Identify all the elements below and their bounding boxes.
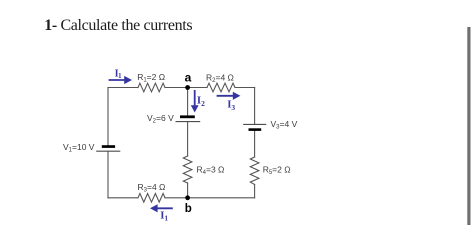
resistor R1 xyxy=(138,83,165,92)
svg-text:R3=4 Ω: R3=4 Ω xyxy=(138,182,166,194)
resistor R2 xyxy=(207,83,235,92)
wire right lower segment xyxy=(254,185,256,198)
svg-text:1- Calculate the currents: 1- Calculate the currents xyxy=(44,17,192,34)
current arrow I3 xyxy=(217,92,241,100)
wire middle branch upper (node a to V2) xyxy=(187,88,189,117)
wire right middle segment xyxy=(254,130,256,157)
svg-text:V1=10 V: V1=10 V xyxy=(63,142,95,154)
current arrow I2 xyxy=(191,90,199,113)
gray page edge line xyxy=(467,27,470,225)
wire middle branch center (V2 to R4) xyxy=(187,122,189,156)
node b xyxy=(185,195,190,200)
battery V2 xyxy=(176,115,201,121)
svg-text:R4=3 Ω: R4=3 Ω xyxy=(197,165,225,177)
wire left lower segment xyxy=(107,152,109,198)
node a xyxy=(185,85,190,90)
battery V3 xyxy=(243,124,266,131)
wire bottom-right segment xyxy=(188,197,255,199)
svg-text:R1=2 Ω: R1=2 Ω xyxy=(137,72,165,84)
current arrow I1 bottom xyxy=(150,204,173,212)
wire right upper segment xyxy=(254,88,256,125)
svg-text:V2=6 V: V2=6 V xyxy=(147,113,174,125)
svg-text:V3=4 V: V3=4 V xyxy=(271,119,298,131)
svg-text:R5=2 Ω: R5=2 Ω xyxy=(263,165,291,177)
wire top-right segment xyxy=(235,87,255,89)
resistor R4 xyxy=(183,156,192,183)
battery V1 xyxy=(96,145,120,151)
wire bottom-left segment xyxy=(108,197,138,199)
wire top-left segment xyxy=(108,87,138,89)
wire left upper segment xyxy=(107,88,109,146)
resistor R5 xyxy=(250,157,259,185)
wire top-middle segment xyxy=(165,87,207,89)
wire middle branch lower (R4 to node b) xyxy=(187,183,189,198)
svg-text:a: a xyxy=(185,70,192,84)
svg-text:b: b xyxy=(185,203,192,215)
current arrow I1 top xyxy=(109,76,132,84)
wire bottom-middle segment xyxy=(165,197,188,199)
svg-text:R2=4 Ω: R2=4 Ω xyxy=(206,73,234,85)
resistor R3 xyxy=(138,194,165,203)
